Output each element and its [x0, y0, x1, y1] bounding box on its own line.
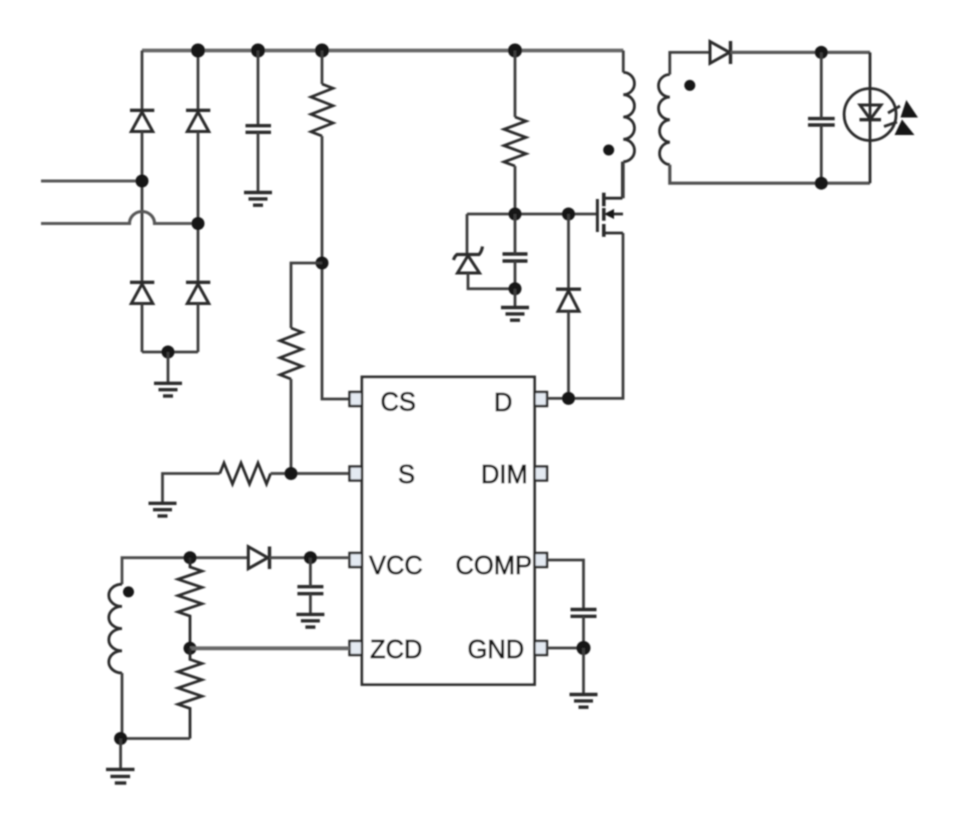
svg-text:S: S — [398, 461, 415, 489]
wire C2 stubs — [514, 214, 517, 254]
node VCC divider — [184, 551, 197, 564]
svg-text:DIM: DIM — [481, 461, 528, 489]
node rail R4 — [508, 44, 522, 58]
wire R4 top — [514, 51, 517, 118]
wire zener bottom — [468, 273, 515, 289]
ground C4 — [296, 614, 324, 627]
diode D6 output — [710, 41, 731, 64]
wire bridge column 1 — [141, 51, 144, 111]
node primary phase dot — [603, 145, 614, 156]
node aux phase dot — [123, 586, 134, 597]
wire S ground stub — [163, 474, 220, 504]
wire ZCD — [190, 646, 350, 650]
wire R1 to CS — [322, 136, 350, 399]
wire bridge bottom — [142, 351, 198, 354]
svg-text:VCC: VCC — [369, 552, 423, 580]
wire R2 to S node — [290, 379, 293, 474]
wire — [141, 304, 144, 353]
wire branch to R2 — [291, 263, 322, 328]
pin CS — [350, 392, 363, 406]
resistor R3 — [220, 463, 271, 484]
wire — [197, 304, 200, 353]
ground aux — [106, 769, 135, 783]
resistor R1 — [311, 84, 333, 136]
diode D5 — [556, 289, 581, 311]
svg-text:COMP: COMP — [456, 552, 533, 580]
wire cap C1 top — [257, 51, 260, 126]
wire zener top — [466, 214, 469, 254]
wire top rail — [142, 49, 623, 53]
IC U1 body — [362, 377, 535, 685]
pin COMP — [535, 553, 548, 567]
wire COMP — [547, 560, 584, 610]
node AC2 — [192, 217, 205, 230]
pin D — [535, 392, 548, 406]
node gate-D5 — [562, 208, 575, 221]
wire R4 bottom — [514, 166, 517, 214]
wire AC line 2 with hop — [41, 212, 198, 224]
wire R3 to S pin — [271, 472, 350, 475]
wire bridge column 2 — [197, 51, 200, 111]
wire secondary bottom — [670, 165, 870, 184]
wire primary to drain — [622, 162, 625, 199]
ground C1 — [244, 193, 272, 206]
wire — [141, 132, 144, 283]
node ZCD tap — [184, 642, 197, 655]
resistor R4 — [504, 117, 526, 166]
diode D3 — [130, 282, 154, 303]
wire C4 stubs — [309, 558, 312, 587]
resistor R2 — [280, 328, 302, 379]
diode D2 — [186, 110, 210, 131]
capacitor C4 — [297, 587, 323, 594]
inductor L1 aux winding — [109, 584, 122, 673]
node GND — [577, 641, 591, 655]
wire D5 top — [567, 214, 570, 289]
wire AC line 1 — [41, 179, 142, 182]
ground S — [149, 503, 177, 516]
node bridge bottom — [162, 346, 175, 359]
zener ZD1 — [454, 247, 483, 274]
wire aux bottom rail — [121, 737, 190, 740]
pin VCC — [350, 553, 363, 567]
wire D7 to VCC pin — [270, 556, 350, 559]
ground bridge — [154, 383, 182, 396]
LED arrows — [884, 100, 918, 135]
wire aux bottom — [121, 673, 124, 739]
diode D1 — [130, 110, 154, 131]
resistor R6 — [178, 648, 202, 738]
node S — [285, 467, 298, 480]
capacitor C2 — [503, 254, 528, 261]
node aux ground — [114, 732, 127, 745]
node zener/C2 bottom — [509, 282, 522, 295]
pin GND — [535, 641, 548, 655]
wire R1 top — [321, 51, 324, 85]
svg-text:GND: GND — [468, 636, 525, 664]
LED LED1 — [844, 52, 896, 183]
node rail-C1 — [191, 44, 205, 58]
capacitor C3 — [808, 119, 835, 125]
svg-text:CS: CS — [381, 389, 416, 417]
pin ZCD — [350, 641, 363, 655]
wire ground stub aux — [119, 739, 122, 770]
svg-text:ZCD: ZCD — [370, 636, 422, 664]
transformer T1 primary — [622, 51, 625, 73]
wire cap C1 bottom — [257, 132, 260, 192]
wire — [197, 132, 200, 283]
transformer T1 secondary — [659, 75, 670, 165]
node rail R1 — [315, 44, 329, 58]
wire ground stub — [167, 352, 170, 383]
wire ground stub — [514, 289, 517, 308]
node output cap bottom — [815, 177, 828, 190]
node secondary phase dot — [684, 80, 695, 91]
diode D4 — [186, 282, 210, 303]
svg-text:D: D — [494, 389, 512, 417]
wire C5 bottom — [582, 616, 585, 648]
capacitor C1 — [246, 126, 272, 133]
capacitor C5 — [571, 610, 597, 617]
node R1/R2 branch — [316, 257, 329, 270]
node rail cap — [251, 44, 265, 58]
wire C3 stubs — [820, 52, 823, 118]
wire D5 bottom — [567, 311, 570, 398]
node output cap top — [815, 46, 828, 59]
pin DIM — [535, 467, 548, 481]
wire output top — [731, 51, 871, 54]
wire GND ground stub — [582, 648, 585, 695]
node gate-R4 — [509, 208, 522, 221]
wire gate rail — [467, 213, 597, 216]
wire GND pin — [547, 647, 584, 650]
node AC1 — [136, 175, 149, 188]
node D rail — [562, 392, 575, 405]
resistor R5 — [178, 558, 202, 649]
wire VCC rail — [122, 558, 248, 585]
transistor Q1 — [597, 162, 623, 237]
wire secondary top — [670, 52, 710, 74]
pin S — [350, 467, 363, 481]
ground C2 — [501, 308, 529, 321]
diode D7 VCC — [248, 547, 269, 570]
wire D rail — [547, 233, 623, 398]
node VCC cap — [304, 551, 317, 564]
ground GND — [570, 695, 598, 708]
